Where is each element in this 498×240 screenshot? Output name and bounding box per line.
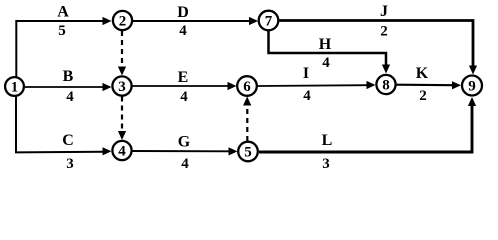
svg-text:4: 4: [180, 89, 188, 105]
dashed dummy 2 to 3: [118, 31, 126, 76]
node 4: [112, 141, 131, 160]
svg-text:H: H: [319, 36, 332, 53]
wire J (7 to 9, right then down): [279, 21, 477, 75]
wire H (7 down, right, down to 8): [269, 31, 391, 74]
svg-text:B: B: [63, 68, 74, 85]
svg-text:G: G: [178, 134, 191, 151]
node 3: [112, 76, 131, 95]
svg-text:4: 4: [66, 89, 74, 105]
svg-text:E: E: [178, 69, 189, 86]
svg-text:8: 8: [382, 78, 390, 94]
wire D (2 to 7): [133, 17, 258, 25]
svg-text:4: 4: [303, 88, 311, 104]
svg-text:6: 6: [243, 79, 251, 95]
wire K (8 to 9): [397, 81, 462, 89]
svg-text:A: A: [57, 4, 69, 21]
svg-text:J: J: [380, 3, 388, 20]
node 9: [462, 76, 482, 96]
svg-text:C: C: [62, 132, 74, 149]
svg-text:4: 4: [322, 55, 330, 71]
svg-text:5: 5: [244, 145, 252, 161]
svg-text:4: 4: [181, 156, 189, 172]
svg-text:7: 7: [265, 14, 273, 30]
node 8: [376, 75, 395, 94]
wire B (1 to 3): [25, 83, 112, 91]
svg-text:D: D: [177, 4, 189, 21]
svg-text:3: 3: [66, 156, 74, 172]
wire E (3 to 6): [133, 82, 237, 90]
svg-text:I: I: [303, 65, 309, 82]
svg-text:2: 2: [419, 88, 427, 104]
node 2: [113, 11, 132, 30]
svg-text:4: 4: [179, 23, 187, 39]
svg-text:4: 4: [118, 144, 126, 160]
wire G (4 to 5): [133, 147, 238, 155]
svg-text:L: L: [322, 132, 333, 149]
svg-text:5: 5: [58, 23, 66, 39]
wire A (1 to 2, up then right): [16, 17, 111, 77]
wire C (1 to 4, down then right): [16, 96, 112, 155]
node 6: [237, 76, 257, 96]
svg-text:3: 3: [322, 156, 330, 172]
dashed dummy 3 to 4: [118, 97, 126, 141]
svg-text:K: K: [416, 65, 429, 82]
svg-text:2: 2: [380, 24, 388, 40]
node 5: [238, 142, 258, 162]
dashed dummy 5 to 6: [243, 97, 251, 142]
svg-text:9: 9: [468, 79, 476, 95]
svg-text:3: 3: [118, 79, 126, 95]
svg-text:2: 2: [119, 14, 127, 30]
svg-text:1: 1: [11, 80, 19, 96]
node 7: [259, 11, 279, 31]
wire I (6 to 8): [258, 81, 376, 89]
wire L (5 right, up to 9): [259, 97, 476, 152]
node 1: [5, 77, 24, 96]
